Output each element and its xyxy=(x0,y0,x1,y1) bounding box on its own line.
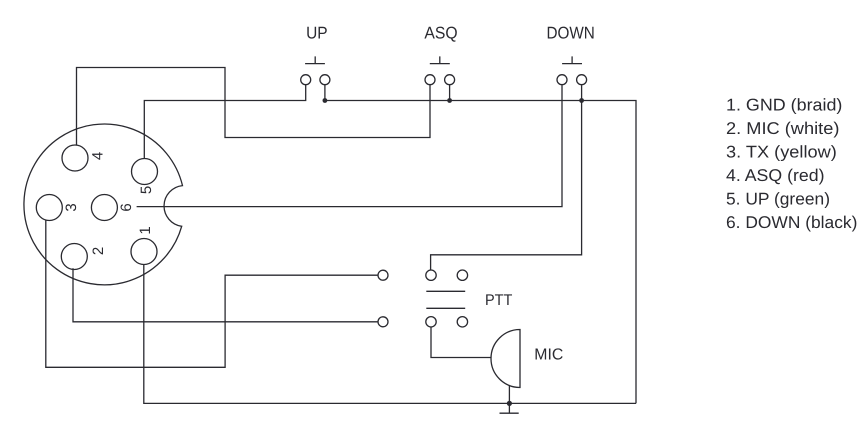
svg-text:1. GND (braid): 1. GND (braid) xyxy=(726,96,842,115)
pin 3 xyxy=(36,195,62,221)
PTT switch terminal bottom-right xyxy=(457,317,467,327)
ground symbol xyxy=(500,403,519,413)
pin 5 xyxy=(132,159,158,185)
switch ASQ terminal right xyxy=(445,75,455,85)
svg-text:3: 3 xyxy=(63,203,80,211)
wire pin1 to bottom ground bus xyxy=(144,264,636,403)
microphone element MIC xyxy=(491,330,520,388)
svg-text:4. ASQ (red): 4. ASQ (red) xyxy=(726,166,825,185)
open terminal upper (TX line) xyxy=(378,270,388,280)
svg-text:2. MIC (white): 2. MIC (white) xyxy=(726,119,839,138)
PTT switch terminal top-right xyxy=(457,270,467,280)
PTT switch terminal top-left xyxy=(426,270,436,280)
junction dot UP/bus xyxy=(323,98,328,103)
PTT switch terminal bottom-left xyxy=(426,317,436,327)
svg-text:4: 4 xyxy=(90,152,107,160)
svg-text:5: 5 xyxy=(138,186,155,194)
connector J1 body outline with keyway notch xyxy=(24,124,183,285)
wire PTT bottom-left to MIC xyxy=(431,327,491,358)
pushbutton ASQ actuator xyxy=(430,56,450,63)
svg-text:PTT: PTT xyxy=(485,292,513,309)
switch DOWN terminal right xyxy=(577,75,587,85)
pushbutton UP actuator xyxy=(305,56,325,63)
open terminal lower (MIC line) xyxy=(378,317,388,327)
wire pin3 to open terminal upper xyxy=(46,220,378,367)
switch DOWN terminal left xyxy=(557,75,567,85)
wire ASQ right terminal stub xyxy=(449,85,451,101)
svg-text:UP: UP xyxy=(306,24,328,43)
junction dot DOWN/bus xyxy=(579,98,584,103)
svg-text:2: 2 xyxy=(90,247,107,255)
switch UP terminal right xyxy=(320,75,330,85)
PTT switch contact bars xyxy=(426,291,465,308)
wire DOWN right terminal to PTT top-left xyxy=(431,85,582,270)
svg-text:3. TX (yellow): 3. TX (yellow) xyxy=(726,143,837,162)
wire pin4 to ASQ left terminal xyxy=(77,68,431,146)
pushbutton DOWN actuator xyxy=(562,56,582,63)
svg-text:5. UP (green): 5. UP (green) xyxy=(726,190,830,209)
switch ASQ terminal left xyxy=(425,75,435,85)
svg-text:6: 6 xyxy=(118,203,135,211)
pin 1 xyxy=(131,239,157,265)
wire MIC to ground bus xyxy=(508,386,510,404)
svg-text:DOWN: DOWN xyxy=(546,24,594,43)
switch UP terminal left xyxy=(301,75,311,85)
pin 6 xyxy=(91,195,117,221)
svg-text:6. DOWN (black): 6. DOWN (black) xyxy=(726,213,857,232)
pin 2 xyxy=(61,244,87,270)
junction dot MIC/ground bus xyxy=(507,401,512,406)
wire ground bus: UP right terminal to right side down to bottom xyxy=(325,85,636,404)
svg-text:MIC: MIC xyxy=(534,346,563,363)
junction dot ASQ/bus xyxy=(447,98,452,103)
wire pin2 to open terminal lower xyxy=(73,268,378,322)
wire pin5 to UP left terminal xyxy=(144,85,305,159)
pin 4 xyxy=(62,145,88,171)
svg-text:ASQ: ASQ xyxy=(424,24,457,43)
wire DOWN left terminal to pin 6 xyxy=(137,85,562,207)
svg-text:1: 1 xyxy=(137,226,154,234)
